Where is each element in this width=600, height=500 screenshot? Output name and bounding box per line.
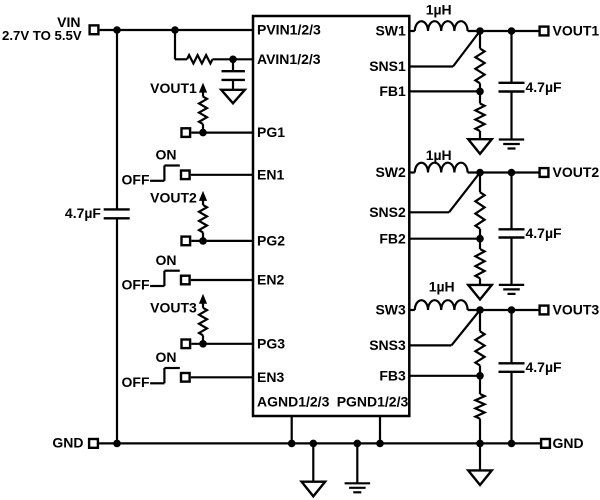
svg-text:GND: GND [52, 435, 83, 451]
svg-text:VOUT2: VOUT2 [553, 164, 600, 180]
svg-text:PG2: PG2 [257, 233, 285, 249]
svg-text:AVIN1/2/3: AVIN1/2/3 [257, 51, 321, 67]
svg-text:4.7µF: 4.7µF [526, 359, 563, 375]
svg-text:PVIN1/2/3: PVIN1/2/3 [257, 22, 321, 38]
svg-text:EN1: EN1 [257, 166, 284, 182]
svg-text:SNS1: SNS1 [369, 58, 406, 74]
svg-text:OFF: OFF [122, 374, 150, 390]
svg-text:4.7µF: 4.7µF [526, 79, 563, 95]
svg-text:EN3: EN3 [257, 369, 284, 385]
svg-text:FB3: FB3 [379, 367, 406, 383]
svg-text:1µH: 1µH [426, 2, 452, 18]
svg-text:VOUT1: VOUT1 [553, 23, 600, 39]
svg-text:VOUT3: VOUT3 [150, 300, 197, 316]
svg-text:AGND1/2/3: AGND1/2/3 [257, 394, 330, 410]
svg-text:VOUT2: VOUT2 [150, 190, 197, 206]
svg-text:SW1: SW1 [375, 23, 406, 39]
svg-text:2.7V TO 5.5V: 2.7V TO 5.5V [2, 28, 82, 43]
svg-text:SNS2: SNS2 [369, 204, 406, 220]
svg-text:SW3: SW3 [375, 302, 406, 318]
svg-text:SW2: SW2 [375, 164, 406, 180]
svg-text:FB1: FB1 [379, 83, 406, 99]
svg-text:VOUT1: VOUT1 [150, 80, 197, 96]
svg-text:OFF: OFF [122, 277, 150, 293]
svg-text:1µH: 1µH [426, 147, 452, 163]
svg-text:4.7µF: 4.7µF [526, 225, 563, 241]
svg-text:PGND1/2/3: PGND1/2/3 [337, 394, 409, 410]
svg-text:VOUT3: VOUT3 [553, 302, 600, 318]
svg-text:1µH: 1µH [429, 279, 455, 295]
svg-text:FB2: FB2 [379, 230, 406, 246]
svg-text:SNS3: SNS3 [369, 337, 406, 353]
svg-text:ON: ON [156, 252, 177, 268]
svg-text:EN2: EN2 [257, 272, 284, 288]
svg-text:GND: GND [553, 435, 584, 451]
svg-text:OFF: OFF [122, 172, 150, 188]
svg-text:4.7µF: 4.7µF [65, 205, 102, 221]
svg-text:PG3: PG3 [257, 335, 285, 351]
svg-text:PG1: PG1 [257, 124, 285, 140]
svg-text:ON: ON [156, 349, 177, 365]
svg-text:ON: ON [156, 147, 177, 163]
